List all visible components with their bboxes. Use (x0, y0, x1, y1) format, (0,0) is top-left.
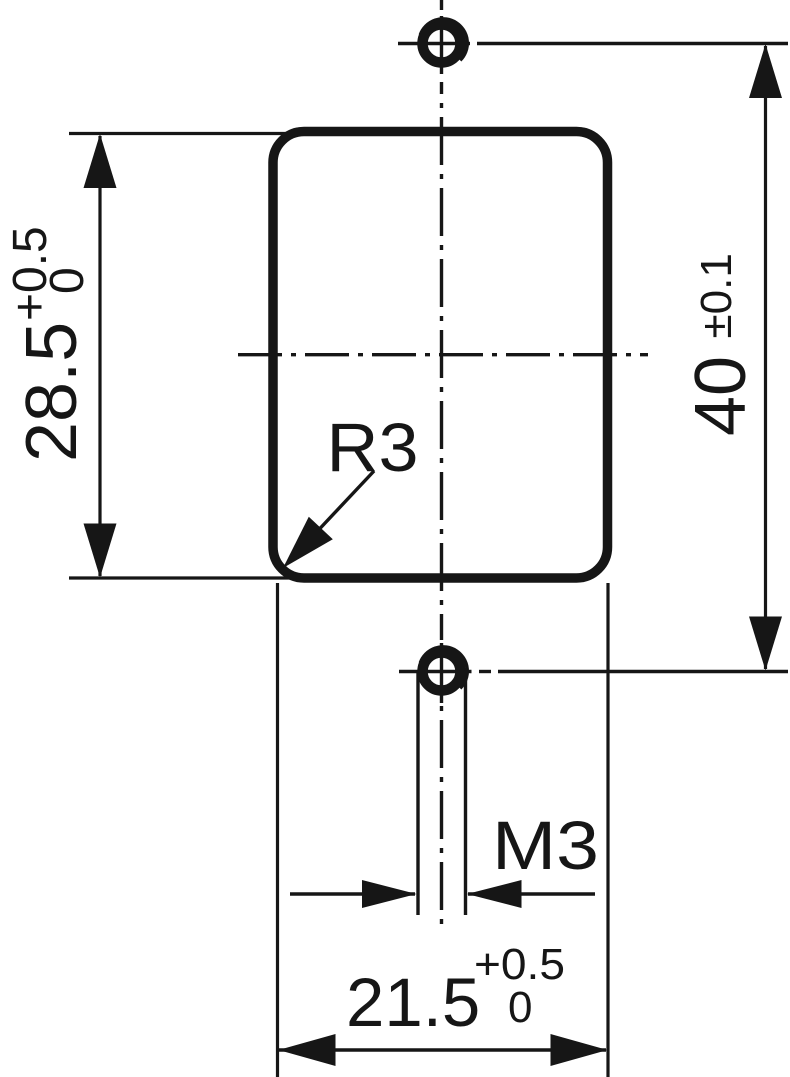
svg-text:21.5: 21.5 (346, 964, 480, 1041)
svg-text:+0.5: +0.5 (474, 940, 565, 989)
svg-text:0: 0 (41, 267, 94, 294)
svg-text:M3: M3 (492, 807, 599, 884)
svg-text:40: 40 (681, 356, 761, 436)
svg-text:R3: R3 (327, 409, 419, 486)
svg-text:±0.1: ±0.1 (692, 253, 741, 338)
svg-text:0: 0 (508, 983, 532, 1032)
svg-text:28.5: 28.5 (12, 322, 92, 462)
